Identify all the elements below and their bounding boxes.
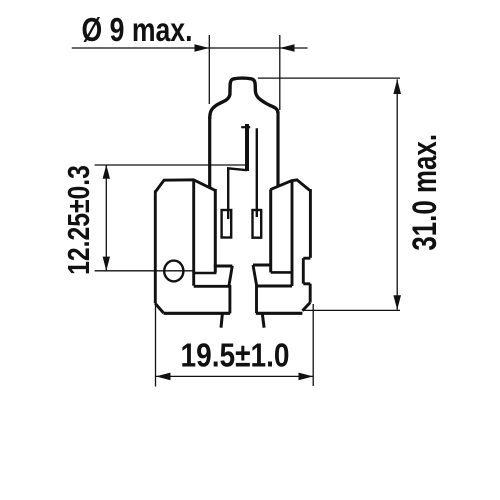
dimension 19.5: right extension line [312,304,314,386]
svg-text:Ø 9 max.: Ø 9 max. [82,12,193,48]
left clip outline [155,180,215,313]
svg-text:19.5±1.0: 19.5±1.0 [180,336,289,374]
dimension 31.0: dimension line [396,79,398,309]
right lead wire [256,128,258,217]
left contact pin [221,314,222,328]
left clip hole (circle) [164,261,183,282]
right blade top edge [257,285,292,288]
dimension 12.25: dimension line [105,165,107,271]
left pin rectangle [222,210,232,238]
right blade left edge [255,285,258,313]
dimension 12.25: top extension line [95,164,247,166]
svg-text:12.25±0.3: 12.25±0.3 [61,165,95,275]
dimension 31.0: bottom extension line [303,309,400,311]
dimension 19.5: left arrowhead [156,373,171,381]
svg-text:31.0 max.: 31.0 max. [407,134,444,251]
dimension Ø9: dimension line [72,47,308,49]
dimension 19.5: left extension line [155,304,157,387]
dimension Ø9: right arrowhead [280,44,295,52]
right clip outline [270,180,310,311]
dimension 12.25: bottom arrowhead [103,257,110,271]
funnel right slant [253,265,257,285]
bulb envelope (glass dome and walls) [210,78,278,188]
right contact pin [262,314,264,328]
bottom edge left section [164,312,231,315]
dimension 31.0: top extension line [258,77,400,79]
filament top tick [241,126,250,128]
left blade top edge [194,285,229,288]
dimension Ø9: left arrowhead [195,44,210,52]
central block bottom edge right [253,264,272,267]
funnel left slant [229,266,232,286]
central block bottom edge left [214,265,233,268]
bottom edge right section [256,312,303,315]
dimension Ø9: left extension line [208,35,210,104]
right clip inner face bottom edge [271,271,292,274]
filament [245,124,249,171]
dimension 12.25: top arrowhead [103,165,110,179]
dimension 31.0: top arrowhead [393,79,401,94]
left blade right edge [228,285,231,313]
left clip inner face bottom edge [194,272,217,275]
central block left wall [214,189,217,273]
dimension 19.5: dimension line [156,375,313,377]
dimension 12.25: bottom extension line [95,270,194,272]
dimension 31.0: bottom arrowhead [393,295,401,310]
dimension 19.5: right arrowhead [299,373,314,381]
left lead wire [228,168,247,219]
central block right wall [269,190,272,273]
dimension Ø9: right extension line [279,35,281,110]
right pin rectangle [253,210,262,238]
